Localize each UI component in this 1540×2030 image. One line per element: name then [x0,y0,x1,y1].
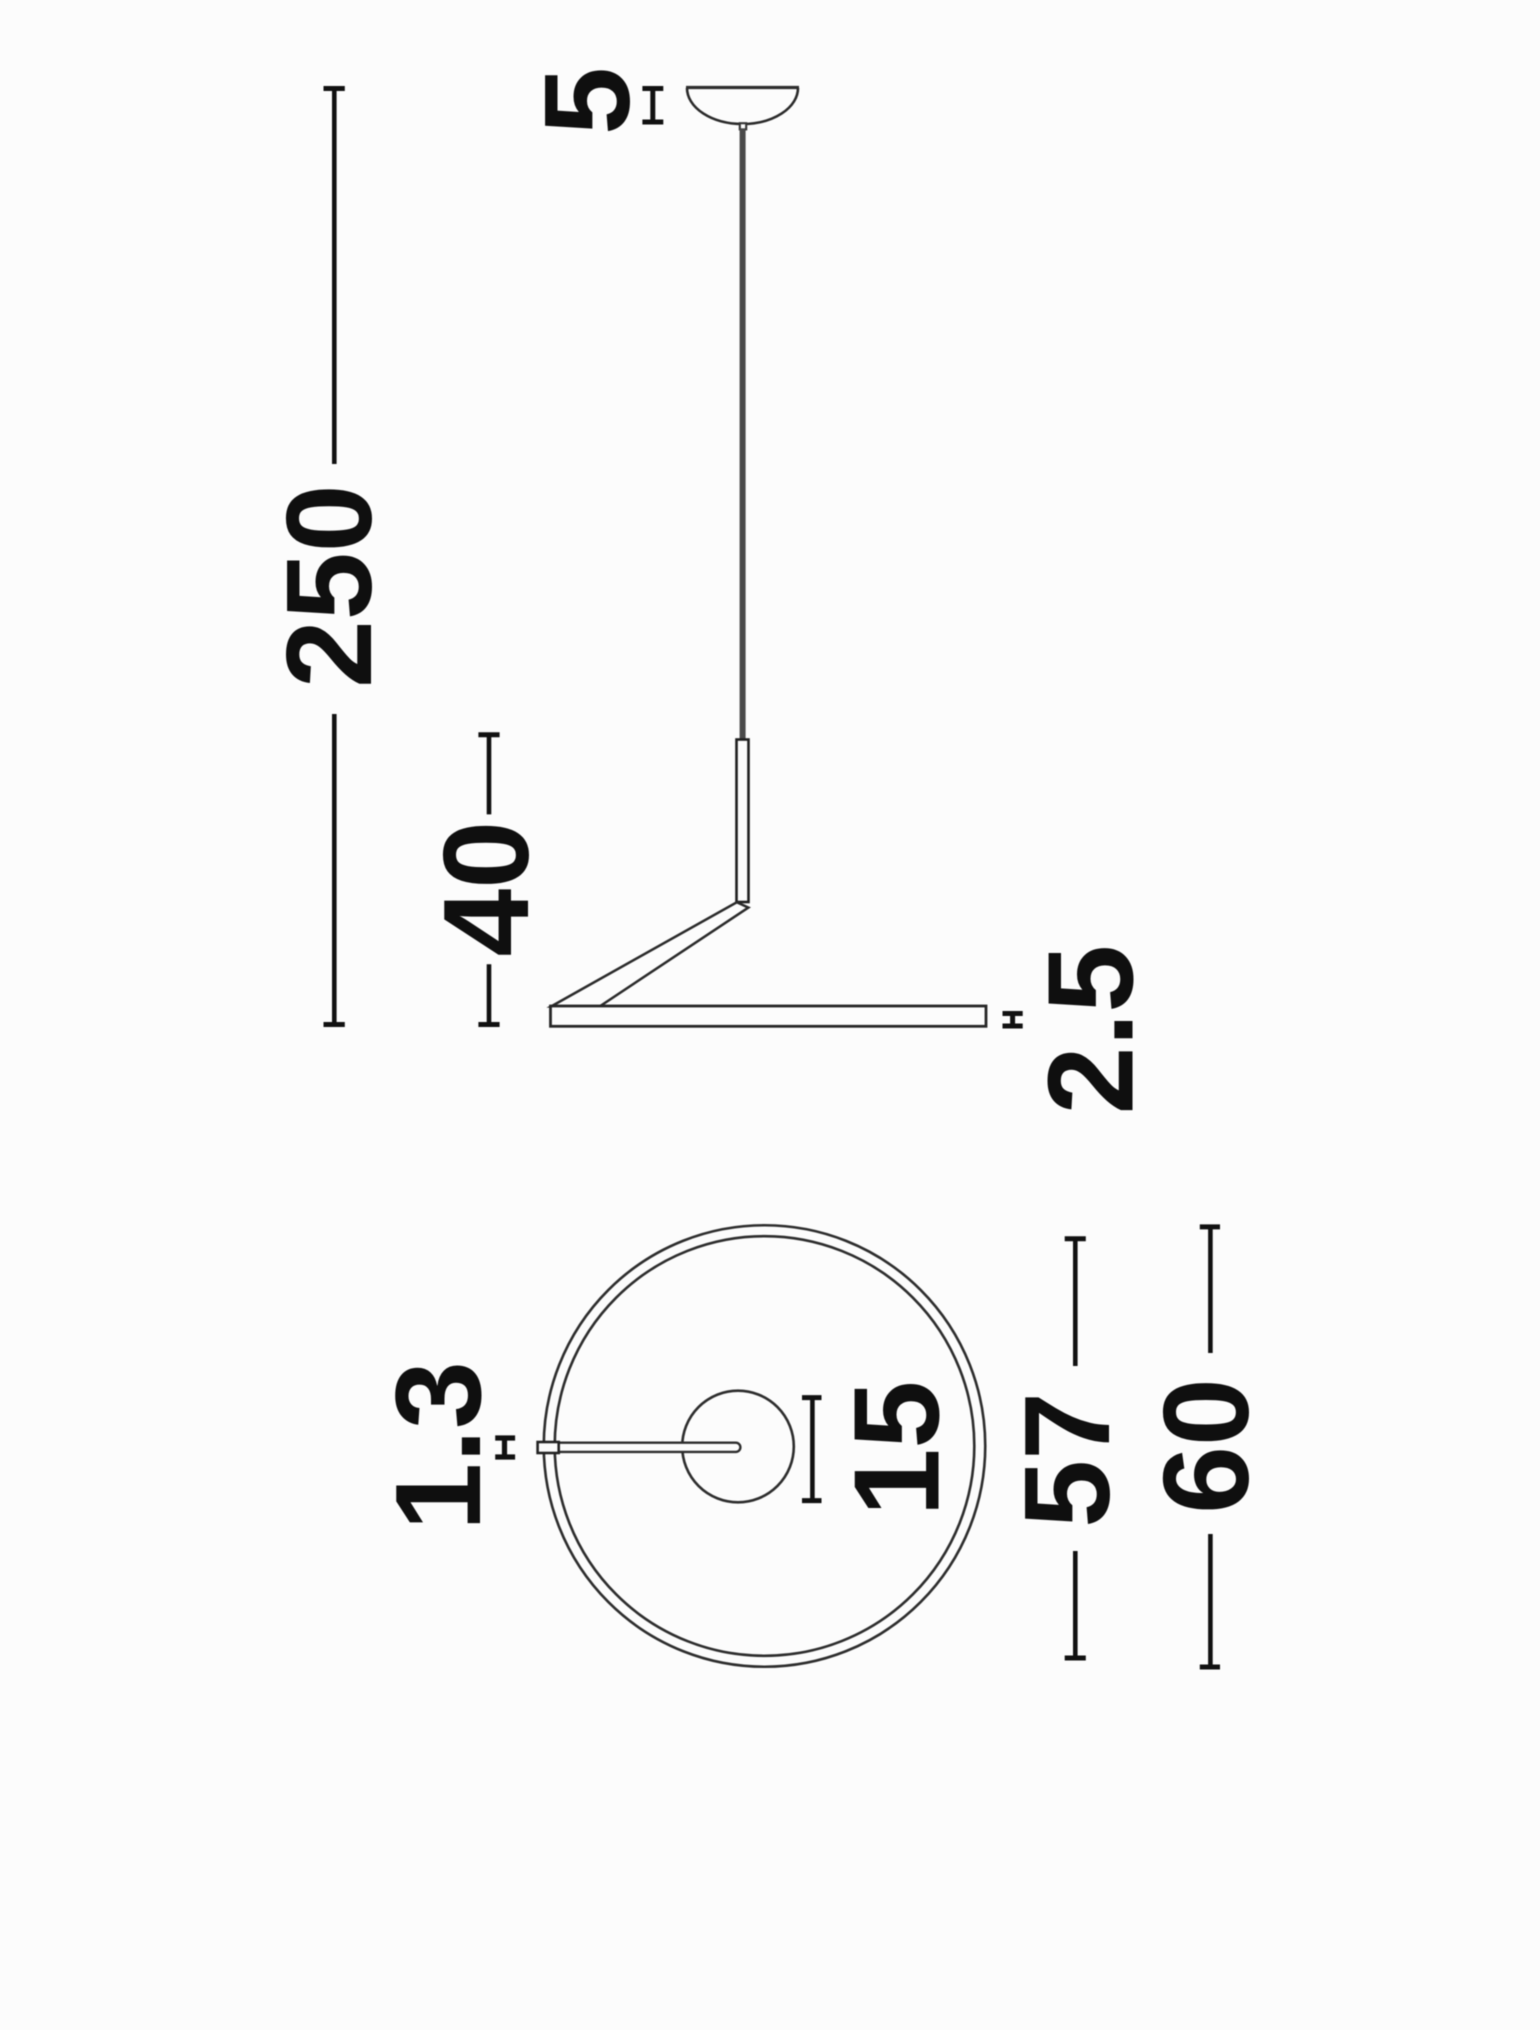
svg-text:250: 250 [261,484,397,688]
svg-text:2.5: 2.5 [1023,945,1159,1115]
svg-text:15: 15 [829,1381,965,1517]
svg-text:5: 5 [519,67,655,135]
svg-text:40: 40 [418,821,554,957]
svg-text:60: 60 [1138,1378,1274,1514]
svg-text:57: 57 [999,1392,1135,1528]
svg-text:1.3: 1.3 [370,1361,506,1531]
